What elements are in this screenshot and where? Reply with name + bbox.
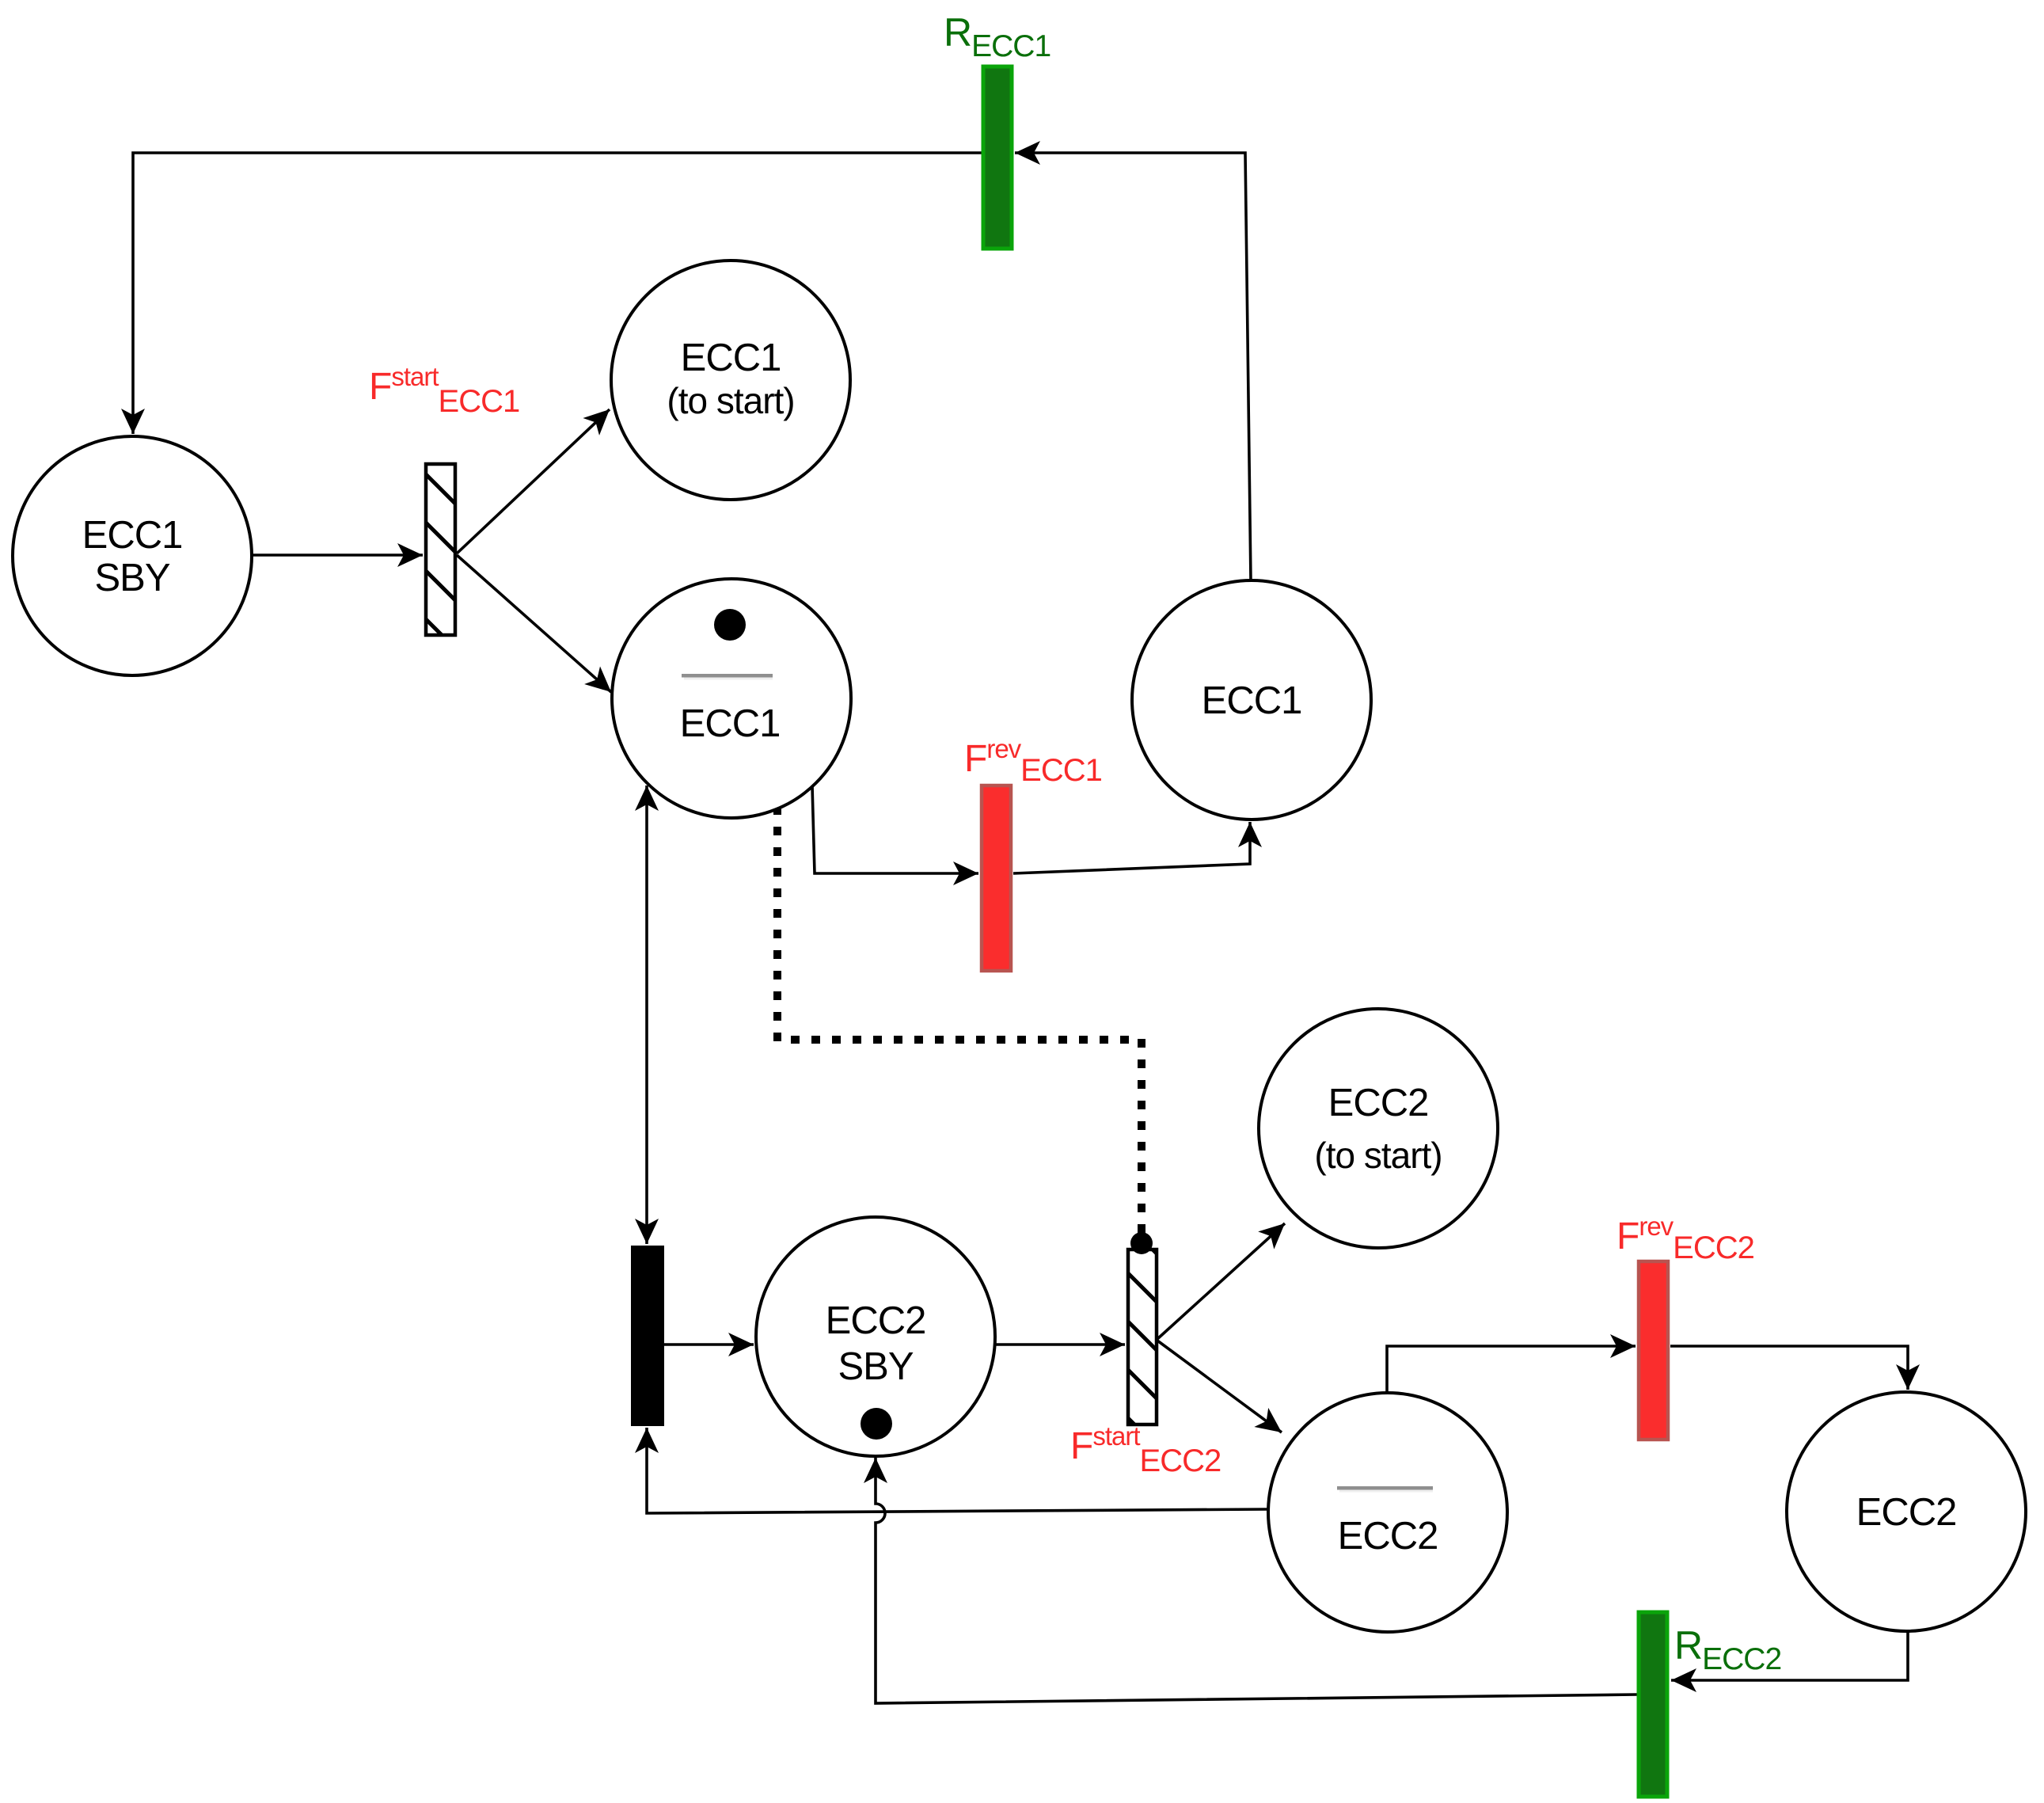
svg-text:ECC1: ECC1: [1202, 679, 1302, 722]
svg-text:ECC2: ECC2: [1338, 1515, 1438, 1558]
transition F_rev_ECC1 (red timed): [982, 785, 1011, 971]
place ECC1-bar (failed, with token and overline): [612, 579, 851, 818]
place ECC2 SBY (with token): [756, 1217, 995, 1456]
svg-text:ECC1: ECC1: [681, 337, 781, 379]
wire F_start_ECC1 to ECC1-bar: [457, 555, 611, 692]
wire F_rev_ECC1 to ECC1: [1013, 822, 1250, 873]
wire ECC2 SBY to F_start_ECC2: [996, 1343, 1125, 1346]
wire ECC1-bar to black transition (double arrow): [645, 785, 648, 1244]
place ECC1 SBY: [13, 436, 252, 675]
wire dotted test arc ECC1-bar to F_start_ECC2: [777, 810, 1142, 1235]
place ECC2 (operational): [1787, 1392, 2026, 1631]
transition immediate (black bar): [631, 1246, 664, 1426]
wire ECC2-bar to F_rev_ECC2: [1387, 1346, 1636, 1392]
svg-text:SBY: SBY: [838, 1345, 913, 1388]
wire ECC1-bar to F_rev_ECC1: [812, 785, 978, 873]
svg-text:FstartECC2: FstartECC2: [1070, 1421, 1221, 1478]
wire R_ECC2 to ECC2 SBY (with hop): [876, 1458, 1637, 1703]
transition F_start_ECC2 (hatched): [1128, 1250, 1157, 1425]
svg-text:ECC1: ECC1: [680, 702, 781, 745]
svg-text:SBY: SBY: [94, 557, 169, 599]
transition R_ECC2 (green timed): [1639, 1612, 1667, 1797]
svg-text:RECC2: RECC2: [1674, 1623, 1781, 1676]
wire black transition to ECC2 SBY: [664, 1343, 754, 1346]
node dot on F_start_ECC2 (test arc end): [1130, 1232, 1153, 1254]
transition F_start_ECC1 (hatched): [426, 464, 455, 635]
svg-text:FrevECC2: FrevECC2: [1617, 1212, 1754, 1265]
wire R_ECC1 to ECC1 SBY (top left elbow): [133, 153, 982, 434]
place ECC1 (operational): [1132, 580, 1371, 820]
svg-text:FrevECC1: FrevECC1: [964, 734, 1102, 788]
wire ECC1 to R_ECC1 (top right elbow): [1015, 153, 1251, 581]
wire F_start_ECC2 to ECC2-bar: [1157, 1341, 1282, 1432]
wire F_rev_ECC2 to ECC2: [1670, 1346, 1908, 1390]
wire F_start_ECC2 to ECC2 (to start): [1157, 1223, 1285, 1339]
svg-text:(to start): (to start): [667, 380, 794, 421]
wire ECC1 SBY to F_start_ECC1: [253, 553, 423, 557]
svg-text:ECC2: ECC2: [826, 1299, 926, 1342]
svg-text:ECC2: ECC2: [1856, 1491, 1957, 1534]
svg-text:RECC1: RECC1: [944, 10, 1050, 63]
place ECC1 (to start): [611, 261, 850, 500]
place ECC2 (to start): [1259, 1009, 1498, 1248]
wire ECC2 to R_ECC2: [1671, 1632, 1908, 1680]
transition R_ECC1 (green timed): [983, 67, 1012, 249]
wire ECC2-bar to black transition (bottom elbow): [647, 1428, 1267, 1513]
transition F_rev_ECC2 (red timed): [1639, 1261, 1668, 1440]
svg-text:ECC1: ECC1: [82, 514, 183, 557]
svg-text:FstartECC1: FstartECC1: [369, 362, 519, 419]
place ECC2-bar (failed, with overline): [1268, 1393, 1507, 1632]
svg-text:(to start): (to start): [1314, 1135, 1442, 1176]
wire F_start_ECC1 to ECC1 (to start): [457, 409, 610, 553]
svg-text:ECC2: ECC2: [1328, 1082, 1429, 1124]
